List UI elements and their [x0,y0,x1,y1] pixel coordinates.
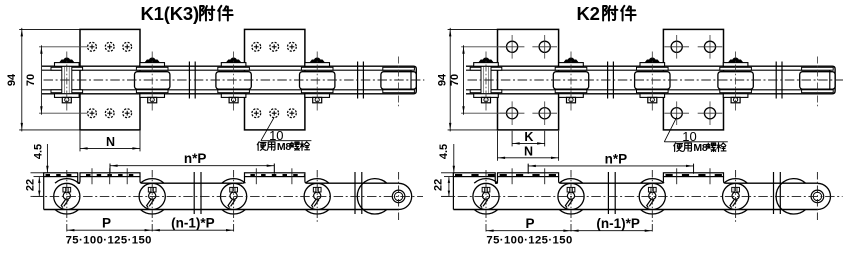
K1 dim 94 extension lines [19,28,80,30]
K1 dim 70 line [40,45,42,114]
K1 slat 2 center extension line [273,164,275,174]
K1 slat 2 hole centerline 2 [291,168,293,184]
K1 leader line to hole (dia 10) [261,117,274,141]
K1 roller R2 (top view) [216,67,251,92]
K2 end pin vertical centerline (top view) [816,57,818,108]
K1 chain break 1 (side view) [194,172,201,214]
svg-text:n*P: n*P [605,151,628,166]
K1 attachment plate 1 [80,29,140,129]
K1 top view inner link plates outline [42,70,411,90]
K1 slat plate 2 (side view) [245,173,305,177]
K1 dim 22 line [38,177,40,196]
K2 side view horizontal centerline [441,195,843,197]
K2 plate1 bolt hole 2 bottom row [532,101,557,125]
K2 slat 1 left tab bend [495,177,497,184]
K1 chain break 2 (top view) [358,62,364,99]
K2 attachment plate 1 [498,29,559,129]
K2 dim (n-1)*P line [571,230,652,232]
K2 roller R3 (top view) [718,67,753,92]
K1 dim 4.5 extension lines [31,172,44,174]
K2 side centerline left extension [441,195,453,197]
svg-text:K1(K3): K1(K3) [141,3,199,24]
K2 roller 3 (side view) [639,179,665,214]
K2 plate2 bolt hole 1 top row [664,35,689,59]
K2 slat plate 2 (side view) [663,173,723,177]
K2 dim 94 extension lines [448,28,498,30]
K1 label use M8 bolts [257,142,266,151]
K1 roller 3 (side view) [221,179,247,214]
K1 notch between slats [78,182,80,184]
K2 slat 2 right tab bend [724,177,726,184]
K2 slat 1 hole centerline 1 [511,168,513,184]
K2 dim n*P end ticks [527,164,529,173]
K2 slat 2 left tab bend [661,177,663,184]
K2 leader line to hole (dia 10) [664,117,676,142]
K2 end roller (side view) [776,179,806,214]
K2 end pin vertical centerline (side view) [816,172,818,222]
K1 dim 94 line [21,28,23,131]
K2 plate2 bolt hole 2 bottom row [698,101,723,125]
K1 side view cut line [43,173,45,210]
K2 top view outer link plates outline [466,66,835,94]
K1 plate2 bolt hole 3 bottom row [288,109,297,118]
K2 attachment bolt at pin 2 (top view) [559,58,584,103]
K1 end pin vertical centerline (top view) [398,57,400,108]
K2 side view top bar segment 2 [726,182,818,184]
K2 roller 4 (side view) [723,179,749,214]
K2 plate1 bolt hole 1 top row [500,35,525,59]
K1 roller R3 (top view) [300,67,335,92]
K1 pin 1 vertical centerline (side view) [66,170,68,233]
K2 dim 4.5 extension lines [441,172,453,174]
K2 slat plate 0 (side view) [453,173,495,177]
K1 side view bottom bar line [44,209,399,211]
svg-text:M8: M8 [693,142,707,154]
K1 plate2 bolt hole 3 top row [288,42,297,51]
K2 roller R2 (top view) [635,67,670,92]
K1 plate1 bolt hole 1 bottom row [88,109,97,118]
K2 slat 1 right tab bend [559,177,561,184]
K1 plate1 bolt hole 1 top row [88,42,97,51]
K1 pin 3 vertical centerline (side view) [233,170,235,233]
K2 roller 2 (side view) [558,179,584,214]
K2 dim N line [498,157,559,159]
K2 pin 1 vertical centerline (top view) [485,52,487,111]
svg-text:22: 22 [433,179,445,191]
K1 roller 1 (side view) [54,179,80,214]
svg-text:(n-1)*P: (n-1)*P [596,216,640,231]
K1 slat 2 left tab bend [242,177,244,184]
K1 plate1 bolt hole 2 bottom row [105,109,114,118]
K1 slat 1 right tab bend [140,177,142,184]
K1 attachment plate 2 [245,29,305,129]
K2 chain break 2 (side view) [774,172,781,214]
K2 chain break 2 (top view) [776,62,782,99]
K1 slat plate 1 (side view) [80,173,140,177]
K2 plate2 bolt hole 1 bottom row [664,101,689,125]
K2 dim 70 line [463,45,465,114]
K2 slat 2 hole centerline 2 [709,168,711,184]
K1 slat plate 0 (side view) [44,173,78,177]
K2 top view horizontal centerline [468,79,844,81]
K2 chain break 1 (side view) [608,172,615,214]
K1 plate1 bolt hole 3 top row [123,42,132,51]
K1 chain break 1 (top view) [189,62,195,99]
svg-text:P: P [525,216,534,231]
K2 dim 4.5 line [453,144,455,173]
K2 pin 2 vertical centerline (side view) [570,170,572,233]
K1 top view outer link plates outline [42,66,416,94]
K2 pin 3 vertical centerline (side view) [651,170,653,233]
K2 dim 94 line [449,28,451,131]
K1 end roller (side view) [357,179,387,214]
K2 end roller (top view) [800,67,835,92]
svg-text:M8: M8 [277,141,291,153]
K2 dim K line [512,142,545,144]
K2 slat 1 center extension line [527,164,529,174]
K2 chain break 1 (top view) [608,62,614,99]
K1 slat 0 right tab bend [78,177,80,184]
K2 roller R1 (top view) [553,67,588,92]
K2 side view cut line [452,173,454,210]
svg-text:(n-1)*P: (n-1)*P [171,215,215,230]
svg-text:K2: K2 [577,3,600,24]
K2 attachment bolt at pin 1 (top view) [474,58,499,103]
K2 slat 0 right tab bend [495,177,497,184]
K2 pin P1 bushing flanges [470,67,502,92]
K1 plate1 bolt hole 3 bottom row [123,109,132,118]
K2 slat plate 1 (side view) [498,173,559,177]
K2 plate1 bolt hole 2 top row [532,35,557,59]
K1 pin 2 vertical centerline (top view) [151,52,153,111]
K2 attachment plate 2 [663,29,723,129]
K2 slat 2 hole centerline 1 [676,168,678,184]
K1 pin 4 vertical centerline (side view) [316,170,318,222]
K2 attachment bolt at pin 3 (top view) [640,58,665,103]
K1 attachment bolt at pin 4 (top view) [305,58,330,103]
K1 pin 3 vertical centerline (top view) [233,52,235,111]
svg-text:94: 94 [6,73,18,86]
K1 dim n*P line [110,165,274,167]
K1 plate2 bolt hole 2 bottom row [270,109,279,118]
K1 side centerline left extension [31,195,44,197]
K1 dim 4.5 line [46,144,48,173]
K1 dim n*P end ticks [109,164,111,173]
K1 slat 1 hole centerline 2 [109,168,111,184]
svg-text:75·100·125·150: 75·100·125·150 [66,235,152,247]
K1 end roller (top view) [381,67,416,92]
K1 side view horizontal centerline [33,195,423,197]
K2 pin 4 vertical centerline (top view) [735,52,737,111]
K2 dim N extension lines [497,131,499,161]
K2 top view inner link plates outline [466,70,830,90]
K2 plate1 bolt hole 1 bottom row [500,101,525,125]
K2 dim n*P line [528,165,693,167]
K1 slat 1 center extension line [109,164,111,174]
svg-text:94: 94 [437,73,449,86]
K2 slat 2 center extension line [693,164,695,174]
K1 roller 2 (side view) [139,179,165,214]
svg-text:n*P: n*P [184,151,207,166]
K2 dim K extension lines [511,131,513,147]
K1 pin P1 bushing flanges [51,67,83,92]
K1 dim N extension lines [79,131,81,152]
K1 attachment bolt at pin 1 (top view) [55,58,80,103]
svg-text:70: 70 [25,74,37,86]
svg-text:4.5: 4.5 [438,144,450,159]
K1 plate2 bolt hole 1 top row [252,42,261,51]
svg-text:22: 22 [25,179,37,191]
K1 side view top bar segment 2 [307,182,398,184]
svg-text:70: 70 [449,74,461,86]
K1 plate2 bolt hole 2 top row [270,42,279,51]
K1 slat 2 right tab bend [305,177,307,184]
K1 slat 1 left tab bend [78,177,80,184]
K2 pin 3 vertical centerline (top view) [651,52,653,111]
K2 roller 1 (side view) [473,179,499,214]
svg-text:4.5: 4.5 [32,144,44,159]
K1 side view top bar segment 1 [142,182,242,184]
K2 dim P line [486,230,571,232]
K1 inner plate end line [410,70,412,90]
K1 dim 70 extension lines [39,46,88,48]
K1 roller R1 (top view) [135,67,170,92]
K1 slat 2 hole centerline 1 [255,168,257,184]
K1 pin 2 vertical centerline (side view) [151,170,153,233]
K2 label use M8 bolts [674,143,683,152]
K2 plate2 bolt hole 2 top row [698,35,723,59]
K1 dim N line [80,147,140,149]
svg-text:75·100·125·150: 75·100·125·150 [486,234,572,246]
K1 end pin vertical centerline (side view) [398,172,400,222]
svg-text:N: N [106,135,115,149]
K1 pin P1 shaft [62,66,72,94]
K2 pin 4 vertical centerline (side view) [735,170,737,222]
K2 side view top bar segment 1 [561,182,661,184]
K1 dim (n-1)*P line [152,229,233,231]
svg-text:P: P [102,215,111,230]
K1 chain break 2 (side view) [355,172,362,214]
K2 pin P1 shaft [481,66,491,94]
K1 dim P line [67,229,152,231]
K2 notch between slats [495,182,497,184]
K2 dim 70 extension lines [461,46,508,48]
K1 plate1 bolt hole 2 top row [105,42,114,51]
K1 plate2 bolt hole 1 bottom row [252,109,261,118]
K2 inner plate end line [829,70,831,90]
K1 slat 1 hole centerline 3 [126,168,128,184]
K2 side view bottom bar line [453,209,817,211]
K1 attachment bolt at pin 2 (top view) [140,58,165,103]
K2 attachment bolt at pin 4 (top view) [723,58,748,103]
K1 pin 1 vertical centerline (top view) [66,52,68,111]
K1 roller 4 (side view) [304,179,330,214]
K2 dim 22 line [448,177,450,196]
K1 slat 1 hole centerline 1 [91,168,93,184]
svg-text:N: N [524,145,533,159]
K2 pin 1 vertical centerline (side view) [485,170,487,233]
K2 pin 2 vertical centerline (top view) [570,52,572,111]
K1 top view horizontal centerline [44,79,425,81]
K1 attachment bolt at pin 3 (top view) [221,58,246,103]
K1 pin 4 vertical centerline (top view) [316,52,318,111]
svg-text:K: K [524,130,533,144]
K2 slat 1 hole centerline 2 [544,168,546,184]
